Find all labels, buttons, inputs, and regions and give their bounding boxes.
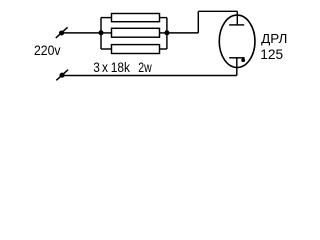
terminal X1 top 220v bbox=[56, 27, 68, 38]
lamp EL1 envelope (ДРЛ bulb) bbox=[219, 15, 255, 67]
wire left jog vertical bbox=[100, 18, 102, 49]
wire lead from R1 right bbox=[160, 17, 167, 19]
wire right jog vertical bbox=[166, 18, 168, 49]
terminal X2 bottom 220v bbox=[56, 70, 68, 81]
lamp auxiliary electrode dot bbox=[241, 58, 245, 62]
resistor R1 bbox=[112, 14, 160, 22]
wire bottom from X2 to lamp bbox=[62, 75, 237, 77]
wire from right node to riser bbox=[167, 32, 198, 34]
svg-text:3x18k2w: 3x18k2w bbox=[93, 60, 152, 75]
wire top horizontal to lamp bbox=[198, 10, 237, 12]
svg-text:220v: 220v bbox=[34, 43, 61, 58]
lamp top electrode lead bbox=[236, 11, 238, 25]
node left junction bbox=[98, 30, 103, 35]
lamp bottom electrode lead bbox=[236, 58, 238, 76]
wire lead to R1 left bbox=[101, 17, 112, 19]
wire lead to R3 left bbox=[101, 48, 112, 50]
resistor R2 bbox=[112, 28, 160, 37]
resistor R3 bbox=[112, 45, 160, 54]
wire lead from R2 right bbox=[160, 32, 167, 34]
svg-text:125: 125 bbox=[260, 47, 283, 62]
wire lead from R3 right bbox=[160, 48, 167, 50]
wire riser vertical bbox=[197, 11, 199, 33]
lamp bottom electrode bar bbox=[229, 57, 244, 59]
svg-text:ДРЛ: ДРЛ bbox=[261, 32, 287, 46]
node right junction bbox=[164, 30, 169, 35]
wire top-left from X1 to left node bbox=[62, 32, 102, 34]
wire lead to R2 left bbox=[101, 32, 112, 34]
lamp top electrode bar bbox=[229, 24, 244, 26]
